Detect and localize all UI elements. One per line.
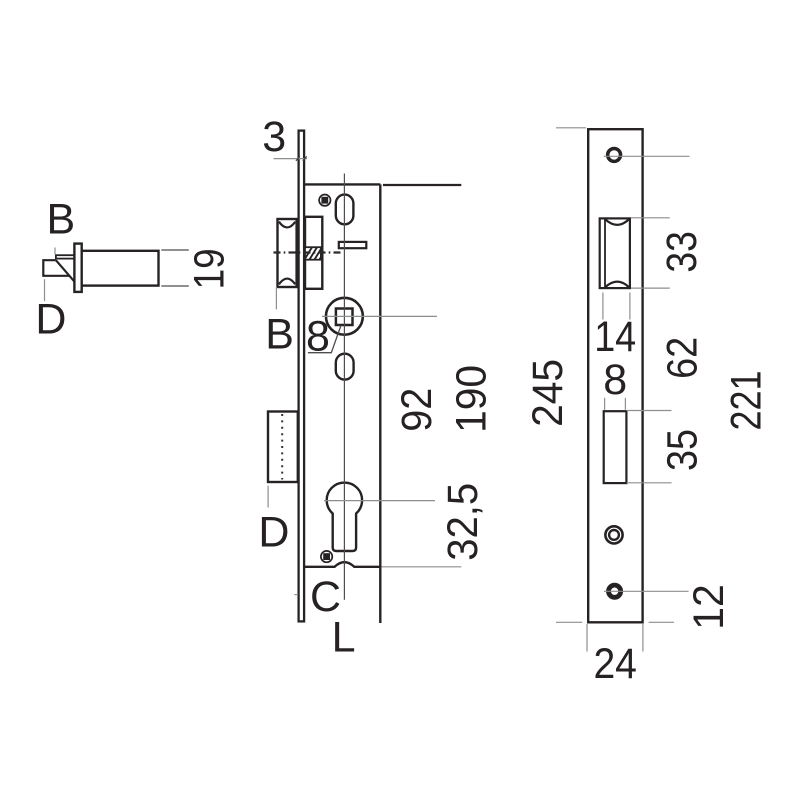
svg-text:B: B	[265, 310, 294, 358]
svg-text:D: D	[35, 296, 66, 344]
svg-text:32,5: 32,5	[439, 483, 487, 561]
svg-text:8: 8	[603, 356, 627, 404]
svg-text:19: 19	[186, 248, 234, 289]
svg-text:D: D	[258, 509, 289, 557]
svg-text:33: 33	[658, 231, 706, 273]
svg-text:14: 14	[594, 313, 636, 361]
svg-text:24: 24	[593, 640, 637, 688]
svg-text:L: L	[332, 614, 356, 662]
svg-text:35: 35	[659, 429, 707, 471]
svg-text:62: 62	[659, 337, 707, 379]
svg-text:3: 3	[262, 113, 286, 161]
svg-text:245: 245	[524, 359, 572, 427]
svg-text:92: 92	[393, 388, 441, 432]
svg-text:12: 12	[685, 584, 733, 630]
svg-text:221: 221	[722, 371, 770, 431]
svg-text:8: 8	[306, 312, 330, 360]
svg-text:190: 190	[448, 365, 496, 433]
svg-text:B: B	[47, 196, 76, 244]
